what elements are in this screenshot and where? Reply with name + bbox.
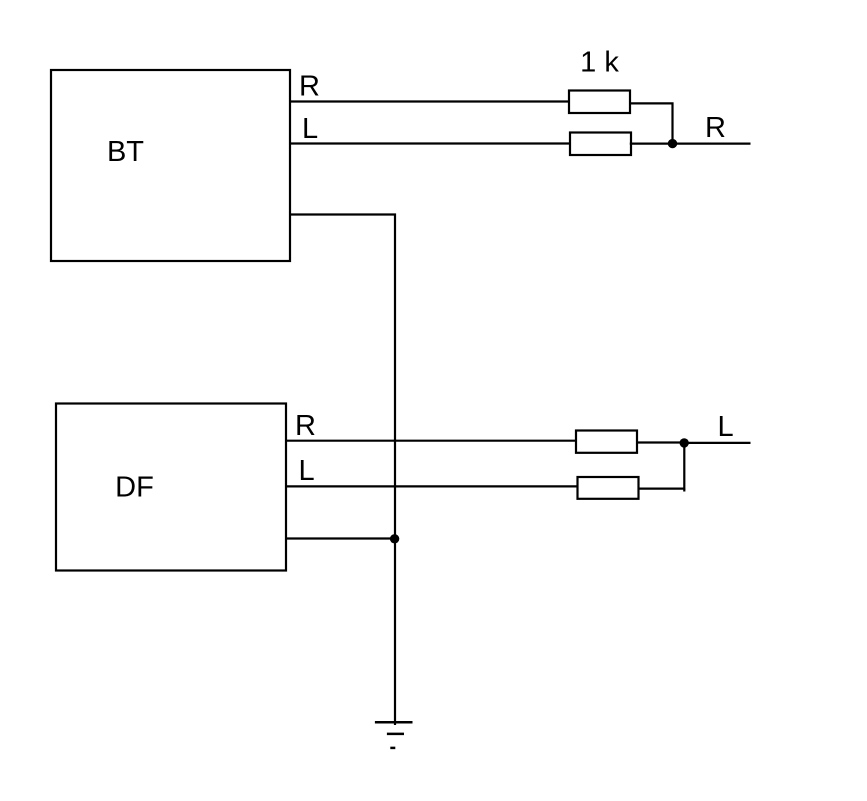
wire BT bottom pin — [290, 215, 395, 726]
svg-text:R: R — [295, 410, 316, 442]
wire R1 to corner — [630, 103, 673, 143]
resistor R (1 k) top — [569, 91, 630, 114]
wire R2 to net R — [630, 143, 751, 145]
svg-text:L: L — [718, 411, 734, 443]
junction L net — [680, 438, 689, 447]
svg-text:R: R — [705, 112, 726, 144]
resistor fourth — [578, 477, 639, 499]
resistor third — [576, 431, 637, 453]
wire R3 to net L — [637, 441, 684, 443]
svg-text:L: L — [302, 113, 318, 145]
svg-text:DF: DF — [115, 472, 154, 504]
wire DF bottom pin — [286, 537, 395, 539]
svg-text:1 k: 1 k — [580, 47, 619, 79]
junction top R net — [668, 139, 677, 148]
resistor second 1 k — [570, 133, 631, 156]
wire DF pin L — [286, 485, 578, 487]
block BT — [51, 70, 290, 261]
wire DF pin R — [286, 440, 576, 442]
block DF — [56, 404, 286, 571]
svg-text:R: R — [299, 71, 320, 103]
junction DF ground — [390, 534, 399, 543]
wire BT pin R — [290, 100, 569, 102]
svg-text:BT: BT — [107, 136, 144, 168]
wire R4 up to junction — [639, 443, 685, 489]
wire BT pin L — [290, 142, 570, 144]
svg-text:L: L — [299, 455, 315, 487]
ground — [375, 722, 413, 748]
